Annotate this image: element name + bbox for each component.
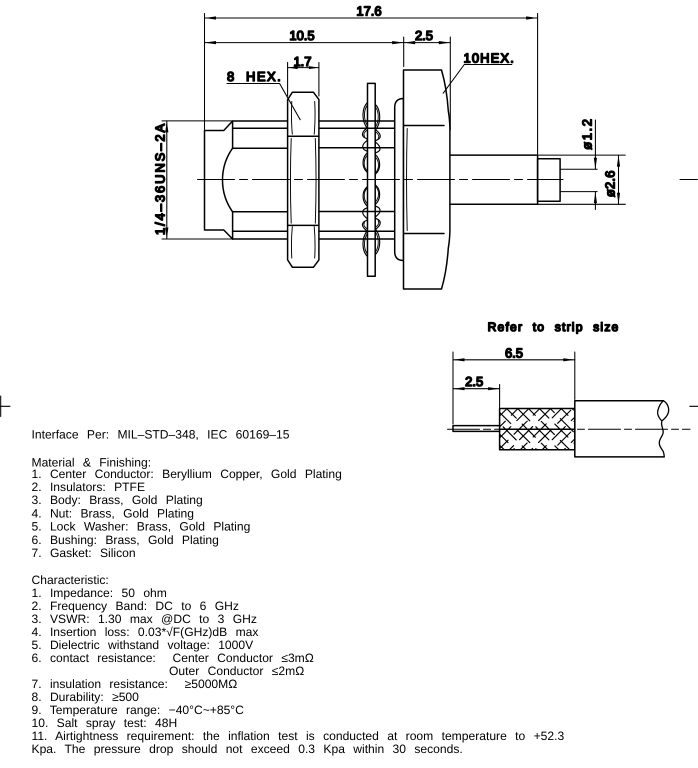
svg-text:4. Insertion loss: 0.03*√F(GHz: 4. Insertion loss: 0.03*√F(GHz)dB max [32,625,259,639]
label 10HEX. [443,51,515,94]
dimension dia 1.2 [594,120,597,210]
svg-text:7. Gasket: Silicon: 7. Gasket: Silicon [32,546,136,560]
lock washer bottom-left [362,187,367,257]
strip dimension 2.5 [453,385,500,408]
svg-text:3. VSWR: 1.30 max @DC to 3 GHz: 3. VSWR: 1.30 max @DC to 3 GHz [32,612,257,626]
braid outline [500,409,575,450]
svg-text:1/4–36UNS–2A: 1/4–36UNS–2A [153,122,168,235]
lock washer bottom-right [375,185,380,255]
nut N2 10HEX [404,70,450,289]
svg-text:9. Temperature range: −40°C~+8: 9. Temperature range: −40°C~+85°C [32,703,245,717]
svg-text:Kpa. The pressure drop should: Kpa. The pressure drop should not exceed… [32,742,463,756]
svg-text:2. Insulators: PTFE: 2. Insulators: PTFE [32,480,146,494]
svg-text:8 HEX.: 8 HEX. [227,69,282,84]
cable braid [500,409,575,450]
dimension dia 2.6 [538,155,626,204]
braid mid line [500,428,575,430]
svg-text:2.5: 2.5 [465,374,483,389]
nut N1 8HEX [288,92,319,267]
svg-text:7. insulation resistance: ≥50: 7. insulation resistance: ≥5000MΩ [32,677,238,691]
svg-text:6. Bushing: Brass, Gold Platin: 6. Bushing: Brass, Gold Plating [32,533,219,547]
svg-text:Outer Conductor ≤2mΩ: Outer Conductor ≤2mΩ [169,664,304,678]
svg-text:ø2.6: ø2.6 [603,170,618,197]
threaded rod behind washers [319,121,395,239]
lock washer top-right [375,104,380,174]
svg-text:6.5: 6.5 [505,346,523,361]
svg-text:10HEX.: 10HEX. [464,51,515,66]
bushing flange [395,99,404,261]
svg-text:10.5: 10.5 [289,28,314,43]
svg-text:Refer to strip size: Refer to strip size [488,320,620,334]
frame center mark left [0,396,10,417]
dimension 1/4-36UNS-2A [162,121,232,239]
shaft [450,155,538,204]
gasket plate [368,83,376,276]
svg-text:8. Durability: ≥500: 8. Durability: ≥500 [32,690,140,704]
svg-text:1. Impedance: 50 ohm: 1. Impedance: 50 ohm [32,586,167,600]
strip centerline [448,428,691,430]
frame center mark right [690,405,698,407]
svg-text:Characteristic:: Characteristic: [32,573,109,587]
svg-text:17.6: 17.6 [356,4,381,19]
dimension 10.5 [205,37,404,67]
svg-text:Interface Per: MIL–STD–348, IE: Interface Per: MIL–STD–348, IEC 60169–15 [32,427,290,441]
svg-text:2.5: 2.5 [415,28,433,43]
svg-text:10. Salt spray test: 48H: 10. Salt spray test: 48H [32,716,178,730]
dimension 2.5 [404,37,451,130]
svg-text:3. Body: Brass, Gold Plating: 3. Body: Brass, Gold Plating [32,493,203,507]
jacket torn edge [658,401,669,457]
dimension 17.6 [205,14,538,155]
svg-text:2. Frequency Band: DC to 6 GHz: 2. Frequency Band: DC to 6 GHz [32,599,239,613]
svg-text:6. contact resistance: Center: 6. contact resistance: Center Conductor … [32,651,314,665]
strip dimension 6.5 [453,352,575,424]
svg-text:4. Nut: Brass, Gold Plating: 4. Nut: Brass, Gold Plating [32,506,195,520]
centerline main [198,179,564,181]
cable center pin [453,426,500,432]
pin diameter lines [560,169,597,191]
svg-text:ø1.2: ø1.2 [580,117,595,149]
svg-text:1.7: 1.7 [293,54,311,69]
braid weave lines [500,409,575,450]
svg-text:11. Airtightness requirement:: 11. Airtightness requirement: the inflat… [32,729,565,743]
svg-text:1. Center Conductor: Beryllium: 1. Center Conductor: Beryllium Copper, G… [32,467,342,481]
svg-text:5. Lock Washer: Brass, Gold Pl: 5. Lock Washer: Brass, Gold Plating [32,520,251,534]
dimension 1.7 [288,63,319,97]
label 8 HEX. [227,69,300,120]
cable jacket [575,401,664,457]
connector body thread end [205,121,288,239]
crimp block [538,159,561,202]
lock washer top-left [362,103,367,173]
svg-text:5. Dielectric withstand voltag: 5. Dielectric withstand voltage: 1000V [32,638,255,652]
